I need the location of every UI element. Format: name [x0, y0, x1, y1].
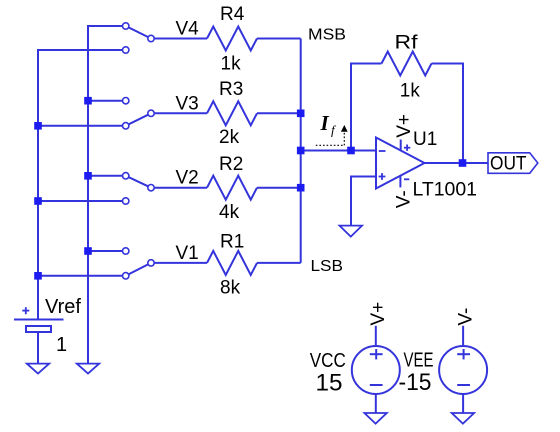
svg-text:LSB: LSB — [311, 258, 344, 275]
ground under rail B — [77, 364, 99, 374]
ground at op-amp + input — [340, 226, 363, 237]
wire V2 top contact to rail B — [88, 175, 126, 177]
switch S2 contacts — [123, 173, 129, 179]
wire node V3 — [151, 112, 207, 114]
wire R2 to rail — [257, 187, 301, 189]
switch S4 lever — [126, 26, 151, 39]
VCC source lead top — [375, 326, 377, 346]
Vref battery plus mark — [22, 307, 29, 314]
wire V3 bottom contact to rail A — [38, 125, 126, 127]
svg-text:U1: U1 — [413, 129, 437, 150]
VEE source lead bottom — [462, 394, 464, 413]
junction rail B / V3 — [84, 97, 92, 105]
wire summing node to op-amp input — [301, 150, 376, 152]
Vref battery bottom plate — [26, 326, 51, 332]
svg-text:R4: R4 — [220, 4, 245, 25]
svg-text:R3: R3 — [219, 79, 243, 100]
junction rail A / V3 — [34, 122, 42, 130]
op-amp V- pin — [399, 176, 401, 187]
svg-text:1k: 1k — [221, 53, 242, 74]
OUT flag — [488, 153, 538, 174]
svg-text:-15: -15 — [399, 369, 432, 396]
resistor R3 — [207, 101, 257, 125]
resistor R4 — [207, 27, 257, 51]
junction output node — [459, 159, 467, 167]
svg-text:V2: V2 — [176, 168, 199, 189]
junction rail B / V1 — [84, 247, 92, 255]
wire node V4 — [151, 38, 207, 40]
wire R1 to LSB rail — [257, 262, 301, 264]
svg-text:I: I — [320, 111, 330, 135]
svg-text:V1: V1 — [176, 243, 199, 264]
svg-text:V4: V4 — [176, 19, 200, 40]
wire V1 top contact to rail B — [88, 250, 126, 252]
wire V1 bottom contact to rail A — [38, 275, 126, 277]
junction rail A / V1 — [34, 272, 42, 280]
junction Rf / input — [347, 147, 355, 155]
svg-text:R1: R1 — [220, 232, 244, 253]
wire node V2 — [151, 187, 207, 189]
switch S4 contacts — [123, 23, 129, 29]
wire rail A (Vref bus) — [38, 50, 126, 320]
VCC source lead bottom — [375, 394, 377, 413]
switch S2 lever — [126, 176, 151, 188]
VEE minus mark — [457, 384, 470, 386]
Vref battery top plate — [14, 319, 64, 321]
svg-text:f: f — [331, 123, 337, 138]
junction rail / R2 — [297, 184, 305, 192]
wire V3 top contact to rail B — [88, 100, 126, 102]
svg-text:V3: V3 — [176, 93, 199, 114]
op-amp V+ pin — [400, 140, 402, 152]
svg-text:OUT: OUT — [490, 154, 527, 175]
svg-text:4k: 4k — [219, 202, 240, 223]
switch S1 contacts — [123, 248, 129, 254]
wire summing rail — [300, 39, 302, 263]
junction rail B / V2 — [84, 172, 92, 180]
ground under Vref — [27, 364, 49, 374]
svg-text:Vref: Vref — [45, 296, 81, 318]
op-amp U1 triangle — [376, 138, 425, 189]
resistor R1 — [207, 251, 257, 275]
op-amp non-inverting input plus — [379, 173, 386, 180]
svg-text:2k: 2k — [219, 127, 240, 148]
wire rail B (ground bus) — [88, 26, 126, 364]
svg-text:V-: V- — [456, 308, 477, 326]
resistor R2 — [207, 176, 257, 200]
VCC source circle — [352, 346, 400, 394]
wire R3 to rail — [257, 112, 301, 114]
svg-text:V+: V+ — [394, 114, 415, 138]
current arrow head — [341, 125, 348, 132]
switch S3 lever — [126, 113, 151, 126]
VCC minus mark — [370, 384, 383, 386]
VEE source circle — [439, 346, 487, 394]
svg-text:Rf: Rf — [395, 33, 419, 54]
wire Rf to output — [432, 64, 464, 164]
wire op-amp output — [425, 162, 489, 164]
junction rail A / V2 — [34, 197, 42, 205]
ground under VEE — [452, 413, 474, 424]
svg-text:LT1001: LT1001 — [413, 179, 478, 200]
op-amp V+ plus mark — [404, 145, 410, 151]
wire V2 bottom contact to rail A — [38, 200, 126, 202]
svg-text:R2: R2 — [219, 154, 243, 175]
svg-text:MSB: MSB — [308, 27, 346, 44]
switch S3 contacts — [123, 98, 129, 104]
ground under VCC — [364, 413, 386, 424]
VCC plus mark — [370, 349, 383, 359]
svg-text:V-: V- — [393, 190, 414, 208]
op-amp inverting input minus — [379, 150, 386, 152]
VEE source lead top — [462, 326, 464, 346]
switch S1 lever — [126, 263, 151, 276]
wire non-inverting input to ground — [351, 177, 376, 226]
junction rail / R3 — [297, 110, 305, 118]
svg-text:V+: V+ — [368, 302, 389, 326]
svg-text:1k: 1k — [400, 81, 420, 102]
op-amp V- minus mark — [404, 178, 409, 180]
wire Rf left vertical — [351, 64, 382, 151]
VEE plus mark — [457, 349, 470, 359]
junction rail / op-amp wire — [297, 147, 305, 155]
wire Vref to ground — [37, 332, 39, 364]
wire node V1 — [151, 262, 207, 264]
resistor Rf — [382, 52, 432, 76]
svg-text:1: 1 — [56, 334, 67, 356]
current arrow dotted — [316, 129, 345, 145]
svg-text:15: 15 — [316, 370, 343, 397]
wire R4 to MSB rail — [257, 38, 301, 40]
svg-text:8k: 8k — [220, 278, 241, 299]
